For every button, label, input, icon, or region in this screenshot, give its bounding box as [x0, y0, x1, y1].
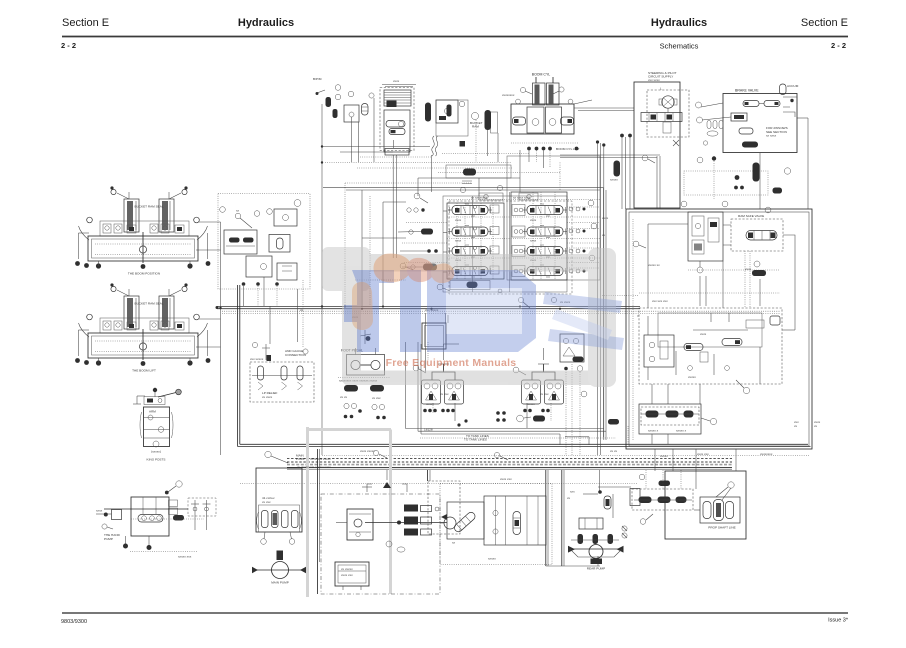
pilot supply valve cluster: [425, 100, 530, 162]
svg-text:CONNECTION: CONNECTION: [285, 353, 306, 357]
main valve block: [443, 156, 600, 294]
wire: drops into bottom tank enclosure: [428, 470, 431, 481]
king post isolator valve: [133, 388, 181, 462]
pilot control valve cluster top left: [218, 194, 310, 290]
svg-text:xxxxx: xxxxx: [426, 402, 434, 406]
servo controller right: [522, 364, 564, 412]
outer boxes: [507, 156, 600, 280]
svg-text:2 - 2: 2 - 2: [831, 41, 846, 50]
wire: left cluster riser pair: [318, 449, 320, 594]
svg-text:L: L: [660, 87, 662, 91]
svg-text:xx xxxx xxxx: xx xxxx xxxx: [513, 196, 531, 200]
mid right pot cluster: [560, 334, 584, 371]
header right: Section E: [801, 17, 848, 29]
bottom enclosure corner wires: [560, 434, 589, 445]
svg-text:(xxxxx): (xxxxx): [151, 450, 161, 454]
dotted drops mid right: [566, 364, 628, 455]
wire: supply double line left riser: [238, 285, 240, 447]
svg-text:xx xx: xx xx: [610, 449, 618, 453]
svg-text:Hydraulics: Hydraulics: [238, 17, 294, 29]
right enclosure lower bank: [639, 384, 717, 444]
servo drain fittings: [496, 411, 545, 422]
svg-text:xxxxx xxx: xxxxx xxx: [178, 555, 192, 559]
svg-text:xx: xx: [567, 496, 571, 500]
watermark frame ring: [322, 247, 616, 387]
svg-text:xxxx: xxxx: [530, 239, 537, 243]
svg-text:BOOM CYL: BOOM CYL: [532, 73, 551, 77]
ram assembly boom lift: [75, 283, 210, 372]
svg-text:REAR PUMP: REAR PUMP: [587, 567, 605, 571]
top tabs: [479, 193, 503, 200]
svg-text:RAM: RAM: [472, 125, 479, 129]
svg-text:xxxx: xxxx: [455, 218, 462, 222]
ram assembly boom position: [75, 186, 210, 275]
compensator row 2: [512, 226, 525, 237]
pilot isolator patch cluster: [610, 156, 791, 199]
svg-text:xx xxxx: xx xxxx: [262, 395, 273, 399]
priority valve pump box: [634, 71, 689, 208]
svg-text:xx: xx: [452, 541, 456, 545]
svg-text:xx: xx: [300, 308, 304, 312]
svg-text:xxxxxxxx: xxxxxxxx: [760, 452, 773, 456]
svg-text:xx xx: xx xx: [340, 395, 348, 399]
svg-text:xx: xx: [236, 209, 240, 213]
svg-text:xxxxxxxx: xxxxxxxx: [502, 93, 515, 97]
circled item callouts: [373, 155, 770, 460]
svg-text:18128: 18128: [424, 428, 433, 432]
svg-text:Section E: Section E: [801, 17, 848, 29]
spool row 3 right: [523, 245, 567, 257]
wire: brake valve drop: [760, 118, 808, 209]
svg-text:xxxx xxxxx: xxxx xxxxx: [360, 449, 375, 453]
svg-text:Issue 3*: Issue 3*: [828, 618, 849, 624]
svg-text:xxxx: xxxx: [745, 267, 752, 271]
brake valve: [696, 84, 799, 153]
wire: left assemblies riser: [196, 222, 222, 455]
right enclosure mid dashed group: [639, 308, 782, 394]
svg-text:xxx: xxx: [570, 490, 575, 494]
boom service valve strip: [446, 165, 511, 196]
svg-text:xx xxxx: xx xxxx: [766, 134, 777, 138]
wire: centre top cross runs: [322, 147, 560, 307]
svg-text:xx xxx: xx xxx: [540, 392, 549, 396]
svg-text:xxxx xxx: xxxx xxx: [697, 452, 709, 456]
svg-text:xx xxx: xx xxx: [262, 500, 271, 504]
right enclosure top valve group: [688, 212, 795, 306]
wire: dotted return line lower: [240, 483, 638, 485]
svg-text:xxxxx: xxxxx: [660, 454, 668, 458]
boom cylinders: [502, 73, 592, 152]
svg-text:xxx xxx xxx: xxx xxx xxx: [652, 299, 668, 303]
rear pump cluster: [567, 487, 631, 571]
block feed valves left: [398, 208, 438, 271]
top left relief valve group: [313, 77, 374, 162]
port dots right of block: [569, 207, 586, 273]
dotted drops below rail to axle bank: [646, 449, 736, 489]
svg-text:BRAKE VALVE: BRAKE VALVE: [735, 89, 759, 93]
header left: Hydraulics: [238, 17, 294, 29]
wire: block area dotted cross lines: [402, 150, 600, 263]
svg-text:xxxxx: xxxxx: [527, 402, 535, 406]
lp control valve cluster: [250, 342, 314, 402]
compensator row 1: [512, 205, 525, 216]
svg-text:xxx xxxxx: xxx xxxxx: [250, 357, 264, 361]
header left: Section E: [62, 17, 109, 29]
node: rail label TO TANK: [420, 438, 616, 442]
wire: long horizontal bundle mid: [216, 296, 781, 314]
svg-text:xxxxx x: xxxxx x: [676, 429, 687, 433]
svg-text:Section E: Section E: [62, 17, 109, 29]
watermark orange flame: [352, 253, 454, 330]
wire: risers boom cyl to rail: [596, 140, 606, 455]
svg-text:B/P/M: B/P/M: [313, 77, 322, 81]
watermark red caption: [386, 357, 517, 369]
svg-text:PROP SHAFT LINE: PROP SHAFT LINE: [708, 526, 735, 530]
wire: riser from S hose: [431, 155, 433, 192]
svg-text:xx xxx: xx xxx: [440, 392, 449, 396]
watermark blue logo letters: [344, 270, 624, 352]
svg-text:xx xxxxx: xx xxxxx: [341, 567, 353, 571]
cylinder pair right: [159, 192, 174, 232]
svg-text:9803/9300: 9803/9300: [61, 619, 87, 625]
wire: long dotted pilot line upper: [325, 163, 512, 169]
footer rule: [62, 612, 848, 614]
main pump assembly: [252, 451, 331, 584]
svg-text:xx: xx: [794, 424, 798, 428]
svg-text:xxxxx: xxxxx: [610, 178, 618, 182]
ram hose right: [169, 186, 188, 199]
foot pedal valve: [338, 330, 390, 383]
svg-text:BOOM CYL LIFT: BOOM CYL LIFT: [556, 147, 580, 151]
svg-text:TO TANK LINES: TO TANK LINES: [466, 434, 489, 438]
header right: Hydraulics: [651, 17, 707, 29]
svg-text:xxx xxxx: xxx xxxx: [648, 78, 660, 82]
svg-text:THE BOOM POSITION: THE BOOM POSITION: [128, 272, 160, 276]
bank interior texture: [456, 203, 458, 279]
svg-text:2 - 2: 2 - 2: [61, 41, 76, 50]
svg-text:xx xxx: xx xxx: [372, 396, 381, 400]
svg-text:BUCKET RAM SEAL: BUCKET RAM SEAL: [135, 205, 164, 209]
bottom pilot caps: [450, 281, 490, 290]
svg-text:ARM: ARM: [149, 410, 156, 414]
svg-text:xxxxx: xxxxx: [688, 375, 696, 379]
bottom right axle bank: [632, 471, 746, 539]
wire: supply double line bottom run: [238, 444, 811, 446]
spool row 3 left: [448, 245, 492, 257]
wire: pilot cluster drops to bundle: [244, 277, 304, 348]
rear pump check valves: [622, 489, 640, 539]
spool row 4 right: [523, 265, 567, 277]
svg-text:xxxx xxx: xxxx xxx: [341, 573, 353, 577]
svg-text:Schematics: Schematics: [660, 42, 699, 51]
ram label: [135, 205, 164, 209]
mount feet: [84, 261, 192, 269]
svg-text:RAM SAFE VALVE: RAM SAFE VALVE: [738, 214, 764, 218]
pilot junction box: [422, 313, 448, 372]
compensator row 3: [512, 246, 525, 257]
svg-text:xxxx xxx: xxxx xxx: [500, 477, 512, 481]
spool row 2 left: [448, 226, 492, 238]
svg-text:xxxx: xxxx: [700, 332, 707, 336]
svg-text:33 MAIN xxxxx: 33 MAIN xxxxx: [310, 457, 331, 461]
svg-text:xxxx: xxxx: [96, 509, 103, 513]
ram hose left: [110, 186, 129, 199]
wire: left riser from top-left valve to rail: [321, 104, 323, 455]
inter bank dotted lines: [447, 199, 600, 201]
servo piping: [428, 342, 551, 438]
wire: risers to right enclosure top: [620, 134, 632, 209]
svg-text:Free Equipment Manuals: Free Equipment Manuals: [386, 357, 517, 369]
centre enclosure frame: [323, 187, 606, 440]
wire: drops from rail to bottom pump cluster: [546, 470, 600, 566]
svg-text:KING POSTS: KING POSTS: [147, 458, 166, 462]
svg-text:PUMP: PUMP: [104, 537, 113, 541]
wire: enclosure link lines y155: [560, 155, 660, 209]
spool row 4 left: [448, 265, 492, 277]
svg-text:xx: xx: [814, 424, 818, 428]
inline strainer diagonal: [453, 511, 477, 534]
svg-text:xxxxx: xxxxx: [488, 557, 496, 561]
hose arc right: [194, 217, 211, 266]
pilot filter assembly: [380, 79, 416, 155]
right enclosure internal wires: [633, 219, 795, 440]
spool row 1 right: [523, 204, 567, 216]
hand pump steer cluster: [96, 481, 216, 559]
torque converter sub box: [428, 481, 460, 534]
manifold row: [100, 221, 189, 236]
centre drop valve: [139, 232, 146, 269]
wire: tank rail dashed bundle: [287, 456, 810, 470]
svg-text:xxxx: xxxx: [455, 239, 462, 243]
wire: grey shaded pump feed: [308, 427, 392, 597]
wire: horizontal link boom cyl to pump box: [574, 108, 634, 111]
svg-text:xxxx: xxxx: [602, 216, 609, 220]
hose arc left: [75, 217, 92, 266]
right enclosure frame: [626, 209, 812, 449]
bottom filter cluster: [440, 484, 552, 565]
wire: centre risers to pilot filter: [393, 155, 396, 258]
header rule: [62, 36, 848, 38]
bottom right small labels: [794, 420, 821, 428]
cylinder pair left: [124, 192, 139, 232]
bottom transmission enclosure: [321, 470, 447, 594]
svg-text:xx: xx: [602, 233, 606, 237]
svg-text:xx xxxxxxxx: xx xxxxxxxx: [471, 196, 488, 200]
svg-text:xxxxx xx: xxxxx xx: [648, 263, 660, 267]
svg-text:PUMP: PUMP: [296, 457, 305, 461]
foot pedal pilot valves: [340, 385, 386, 419]
micro labels centre: [297, 196, 773, 482]
spool row 2 right: [523, 226, 567, 238]
svg-text:MAIN PUMP: MAIN PUMP: [271, 581, 289, 585]
wire: boom cyl drops: [476, 120, 550, 168]
servo controller left: [422, 364, 464, 412]
wire: drops to bottom right bank: [655, 449, 696, 489]
spool row 1 left: [448, 204, 492, 216]
svg-text:xxxxx x: xxxxx x: [648, 429, 659, 433]
svg-text:THE BOOM LIFT: THE BOOM LIFT: [132, 369, 156, 373]
svg-text:Hydraulics: Hydraulics: [651, 17, 707, 29]
main beam box: [88, 236, 198, 261]
svg-text:xxxx: xxxx: [393, 79, 400, 83]
svg-text:xx xxxxx xxx x xxxx xxxx: xx xxxxx xxx x xxxx xxxx: [297, 465, 331, 469]
svg-text:ACCUM: ACCUM: [787, 84, 799, 88]
svg-text:xxxx: xxxx: [530, 218, 537, 222]
caption: [128, 272, 160, 276]
compensator row 4: [512, 266, 525, 277]
